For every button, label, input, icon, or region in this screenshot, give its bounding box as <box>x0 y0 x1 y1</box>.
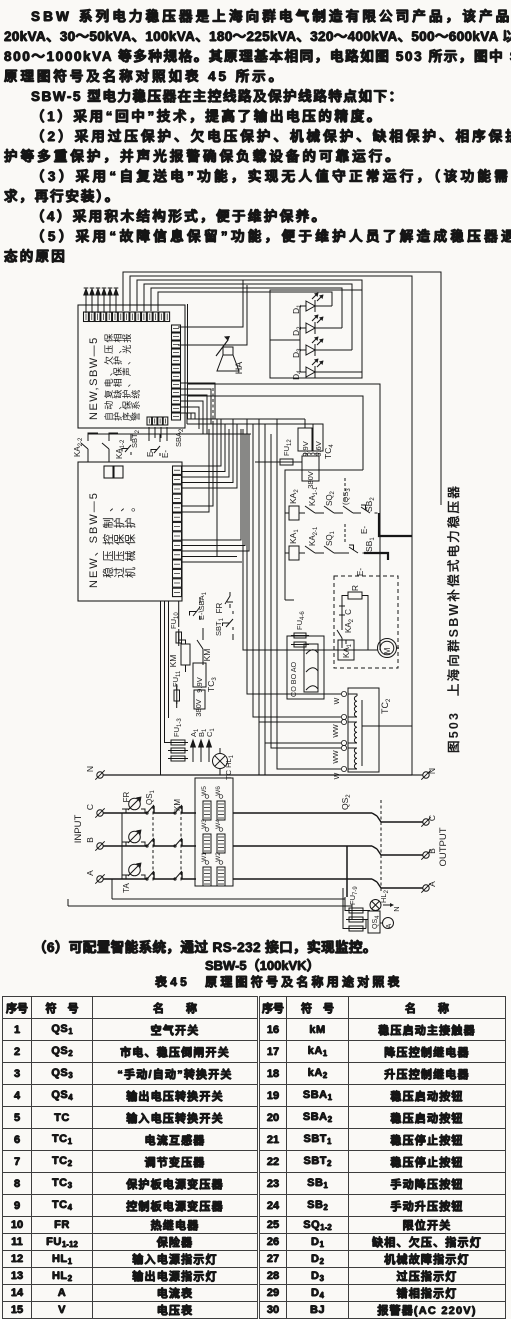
svg-text:TC3: TC3 <box>206 677 218 692</box>
dashed fold line right of protection board <box>212 388 214 432</box>
svg-text:TC2: TC2 <box>380 698 392 714</box>
wire: relay row1 <box>285 512 300 514</box>
svg-text:C: C <box>344 609 353 615</box>
svg-text:FU12: FU12 <box>282 439 293 456</box>
wire bundle: TC2 feeder risers <box>247 419 341 769</box>
fuse FU10 <box>169 612 182 646</box>
terminal N input <box>85 766 105 780</box>
svg-text:SQ1: SQ1 <box>325 530 336 546</box>
wire: KM circuit <box>179 592 233 672</box>
svg-text:W: W <box>334 772 341 779</box>
wire: relay row2 and risers <box>285 470 363 600</box>
switch (QS3) <box>338 488 357 513</box>
contact KM aux <box>197 635 212 661</box>
arrows A1 B1 C1 <box>189 728 216 762</box>
winding pair W1 W2 <box>201 852 225 886</box>
svg-text:SBA2: SBA2 <box>174 428 185 447</box>
winding pair W3 W4 <box>201 819 225 853</box>
svg-text:FU7-9: FU7-9 <box>348 886 359 905</box>
lamp HL1 <box>213 748 236 780</box>
svg-text:KM: KM <box>168 655 178 668</box>
button SBA1 <box>190 591 209 620</box>
svg-text:FU4-6: FU4-6 <box>295 611 306 630</box>
contact KA1-1 <box>300 486 319 513</box>
svg-text:HL2: HL2 <box>379 889 390 903</box>
wire bundle: left risers to TC3/FU1-3 <box>161 601 169 775</box>
control board NEW,SBW-5 (lower) <box>78 462 182 601</box>
wire bundle: box A right terminals elbow down to bus <box>181 383 215 434</box>
svg-text:B: B <box>427 848 437 854</box>
line (6) below schematic <box>33 936 377 956</box>
svg-text:NEW、SBW—5: NEW、SBW—5 <box>88 491 100 588</box>
contact KA2-1 <box>300 526 319 553</box>
wire bundle: lower ladder box B <box>182 540 242 562</box>
transformer TC4 with fuse FU12 <box>255 419 335 489</box>
button SB2 <box>357 497 378 534</box>
svg-text:E-: E- <box>161 450 170 458</box>
wire: motor feeder riser <box>243 429 373 650</box>
svg-text:W: W <box>334 697 341 704</box>
limit switch SQ2 <box>319 490 338 513</box>
paragraph text <box>31 5 511 25</box>
fuse FU1-3 <box>168 718 188 761</box>
diode D2 <box>291 315 324 337</box>
svg-text:N: N <box>392 906 401 911</box>
motor M <box>378 639 397 658</box>
resistor R <box>348 585 362 599</box>
svg-text:KA2: KA2 <box>344 618 355 633</box>
button SBT2 <box>122 429 141 455</box>
svg-text:A: A <box>386 923 393 928</box>
wires: contacts to bus <box>88 427 167 442</box>
svg-text:警系统: 警系统 <box>130 387 141 421</box>
svg-text:TC4: TC4 <box>323 444 335 459</box>
svg-text:WW: WW <box>333 750 340 764</box>
terminal C input <box>85 804 105 818</box>
limit switch SQ1 <box>319 530 338 553</box>
svg-text:SB1: SB1 <box>364 537 376 552</box>
svg-text:NEW,SBW—5: NEW,SBW—5 <box>88 336 100 420</box>
switch QS2 <box>340 794 381 893</box>
svg-text:SQ2: SQ2 <box>325 490 336 506</box>
relay KA2 coil <box>288 489 300 520</box>
svg-text:KA2-1: KA2-1 <box>308 526 319 546</box>
relay KA1 coil <box>288 529 300 560</box>
svg-text:380V: 380V <box>306 471 315 489</box>
svg-text:E-: E- <box>356 568 365 576</box>
svg-text:QS1: QS1 <box>145 789 156 805</box>
terminals W1-W6 on TC2 <box>333 691 347 779</box>
LED box frame <box>270 290 362 378</box>
svg-text:机械保护。: 机械保护。 <box>123 496 137 579</box>
svg-text:图503 上海向群SBW补偿式电力稳压器: 图503 上海向群SBW补偿式电力稳压器 <box>446 484 461 753</box>
svg-text:380V: 380V <box>194 699 203 717</box>
wire bundle: center risers alpha with ladders <box>182 419 249 557</box>
svg-text:稳压控制、: 稳压控制、 <box>101 496 115 579</box>
current transformer TA phase A <box>122 863 145 880</box>
svg-text:FU1-3: FU1-3 <box>172 718 183 737</box>
table 45 <box>2 996 506 1319</box>
svg-text:SB2: SB2 <box>364 497 376 512</box>
contact KA2-2 <box>73 433 98 462</box>
terminal C output <box>421 815 437 827</box>
wire: motor feed line <box>342 640 399 650</box>
wire: fan bus from protection board top to right-side buses <box>123 272 441 775</box>
wire: TA left link <box>121 813 123 879</box>
svg-text:D2: D2 <box>291 326 303 336</box>
wire bundle: horizontal bus lines <box>88 413 318 434</box>
svg-text:TC HL1: TC HL1 <box>224 754 235 780</box>
wires: fuse feeds from phase returns <box>343 888 370 929</box>
wire: heavy links <box>364 513 412 560</box>
capacitor C <box>339 596 368 649</box>
svg-text:N: N <box>427 768 437 774</box>
label N with arrow <box>383 903 401 912</box>
terminal N output <box>412 768 437 780</box>
wires: phase lines <box>103 806 196 879</box>
wire: left risers of section buses <box>68 879 112 906</box>
svg-text:(QS3: (QS3 <box>341 488 352 505</box>
dashed box motor drive <box>334 576 398 668</box>
button SBT1 <box>214 611 233 636</box>
svg-text:WW: WW <box>333 724 340 738</box>
winding pair W5 W6 <box>201 786 225 820</box>
fuse FU4-6 <box>291 611 309 647</box>
svg-text:D1: D1 <box>291 304 303 314</box>
svg-text:QS2: QS2 <box>340 794 352 810</box>
terminal B output <box>421 848 437 860</box>
diode D3 <box>291 337 324 359</box>
svg-text:KA1: KA1 <box>342 643 353 658</box>
svg-text:TA: TA <box>122 883 131 893</box>
wire: vertical right of protection board <box>187 304 189 419</box>
svg-text:E-\SBA1: E-\SBA1 <box>197 591 208 620</box>
current transformer TA phase C <box>122 797 145 814</box>
svg-text:KM: KM <box>173 799 182 811</box>
terminal B input <box>85 837 105 851</box>
wires: LED ladder <box>270 306 362 372</box>
switch QS1 <box>145 789 156 882</box>
svg-text:KA2-2: KA2-2 <box>73 437 84 457</box>
terminal A output <box>421 881 437 893</box>
button SBA2 <box>151 428 185 456</box>
svg-text:9.9V: 9.9V <box>301 441 310 456</box>
wire: section bus outer <box>188 384 381 650</box>
svg-text:HA: HA <box>234 362 244 375</box>
relay contact KA2 (motor box) <box>337 618 355 640</box>
selector box CO BO AO <box>287 636 324 699</box>
wire: heavy tap to cluster <box>346 846 348 897</box>
svg-text:C: C <box>85 804 95 810</box>
button SB1 <box>345 537 376 576</box>
fuse FU7-9 stack <box>346 886 366 931</box>
caption table title <box>155 973 403 990</box>
svg-text:A: A <box>427 881 437 887</box>
main compensation transformer box <box>195 778 233 886</box>
svg-text:C: C <box>427 815 437 821</box>
svg-text:N: N <box>85 766 95 772</box>
wires: output lines with jogs at QS2 <box>233 813 423 888</box>
svg-text:D3: D3 <box>291 348 303 358</box>
contactor coil KM <box>168 644 190 667</box>
terminal A input <box>85 870 105 884</box>
relay contact KA1 (motor box) <box>338 640 354 660</box>
wire: returns to N line <box>259 722 265 775</box>
ammeter A <box>380 918 394 929</box>
contact KA1-2 <box>102 433 126 462</box>
wire: bottom return lines <box>68 899 352 906</box>
svg-text:INPUT: INPUT <box>73 815 84 844</box>
svg-text:FR: FR <box>215 602 224 613</box>
speaker HA alarm <box>178 280 247 374</box>
svg-text:E-: E- <box>360 526 369 534</box>
svg-text:A: A <box>85 870 95 876</box>
svg-text:M: M <box>383 647 392 654</box>
transformer TC3 with fuse FU11 <box>171 663 218 717</box>
svg-text:R: R <box>350 585 360 591</box>
svg-text:SBT2: SBT2 <box>130 429 141 448</box>
diode D1 <box>291 293 324 315</box>
svg-text:B: B <box>85 837 95 843</box>
wire: N line <box>103 774 412 776</box>
svg-text:CO BO AO: CO BO AO <box>289 661 298 697</box>
svg-text:过压保护、: 过压保护、 <box>112 496 126 579</box>
caption SBW-5 (100kVK) <box>205 955 320 974</box>
svg-text:SBT1: SBT1 <box>214 617 225 636</box>
protection board NEW,SBW-5 (upper) <box>78 305 185 428</box>
lamp HL2 <box>370 889 390 910</box>
contactor KM main contacts <box>173 799 182 882</box>
current transformer TA phase B <box>122 830 145 847</box>
thermal contact FR <box>215 592 233 613</box>
wires: input stubs with arrows into protection board <box>84 288 119 313</box>
svg-text:KA1: KA1 <box>288 529 300 544</box>
transformer TC2 <box>348 688 412 772</box>
wire: section bus inner <box>188 396 364 470</box>
svg-text:OUTPUT: OUTPUT <box>438 827 449 866</box>
svg-text:FR: FR <box>122 791 131 802</box>
switch box QS4 <box>368 911 381 933</box>
svg-text:KA2: KA2 <box>288 489 300 504</box>
diode D4 <box>291 359 324 381</box>
